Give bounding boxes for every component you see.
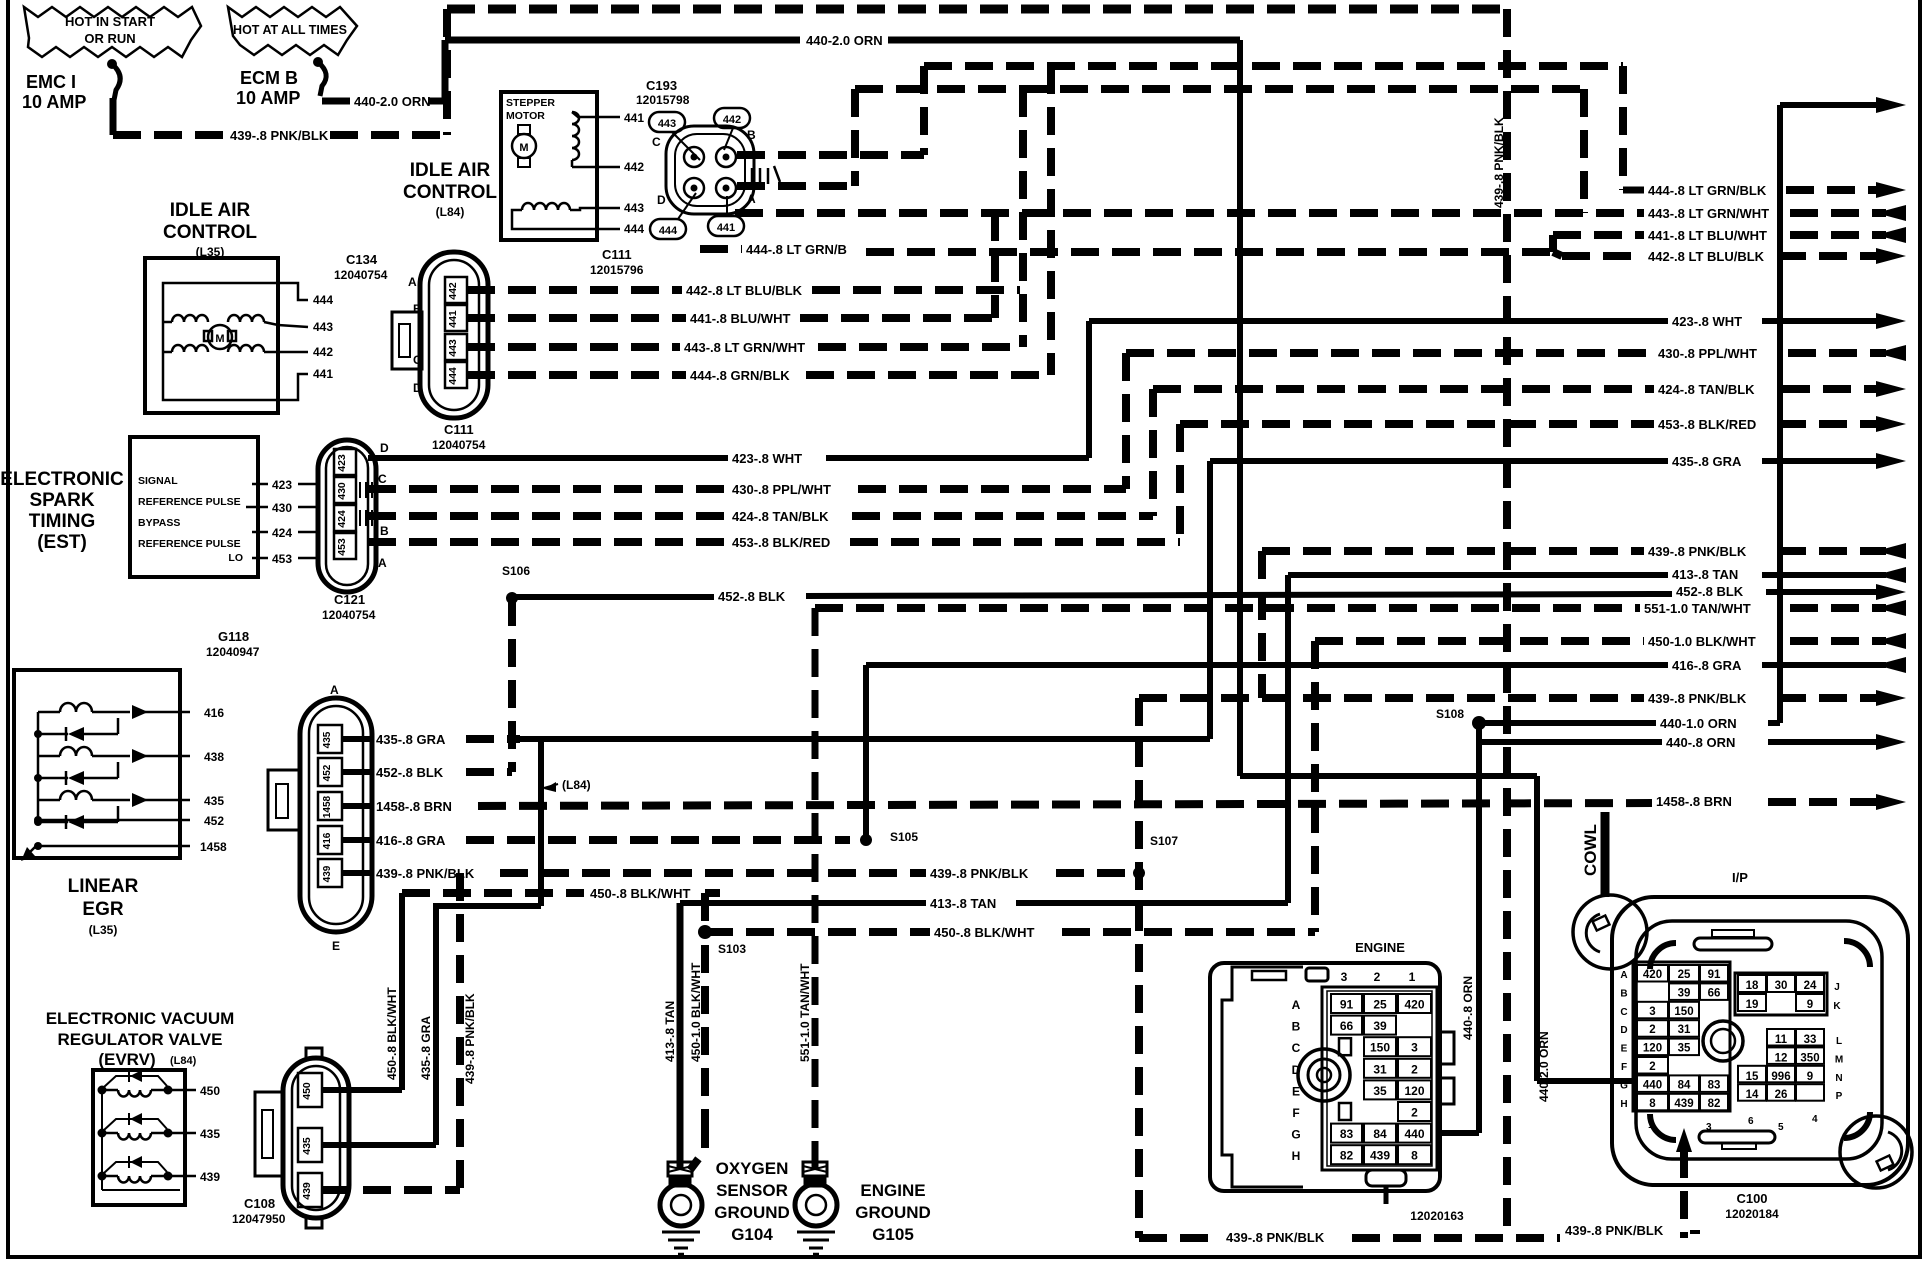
svg-text:(L35): (L35) xyxy=(89,923,118,937)
label ELECTRONIC SPARK TIMING (EST) xyxy=(0,469,124,553)
svg-text:420: 420 xyxy=(1643,969,1662,981)
svg-text:C: C xyxy=(652,135,661,149)
svg-text:B: B xyxy=(1620,988,1627,999)
svg-text:551-1.0 TAN/WHT: 551-1.0 TAN/WHT xyxy=(1644,601,1751,616)
wire 1458-.8 BRN xyxy=(342,794,1906,814)
svg-text:(L84): (L84) xyxy=(436,205,465,219)
svg-text:14: 14 xyxy=(1746,1089,1759,1101)
svg-text:(EVRV): (EVRV) xyxy=(98,1050,155,1069)
svg-text:453: 453 xyxy=(336,538,348,556)
label IDLE AIR CONTROL (L84) xyxy=(403,160,497,219)
svg-text:91: 91 xyxy=(1340,998,1354,1012)
svg-text:82: 82 xyxy=(1708,1098,1721,1110)
svg-text:30: 30 xyxy=(1775,980,1788,992)
svg-text:IDLE AIR: IDLE AIR xyxy=(410,160,491,181)
svg-text:B: B xyxy=(413,302,422,316)
svg-text:5: 5 xyxy=(1778,1122,1784,1133)
svg-text:453-.8 BLK/RED: 453-.8 BLK/RED xyxy=(1658,417,1756,432)
label ENGINE GROUND G105 xyxy=(855,1181,931,1244)
svg-text:439-.8 PNK/BLK: 439-.8 PNK/BLK xyxy=(1565,1223,1664,1238)
svg-text:C111: C111 xyxy=(602,247,632,262)
svg-text:MOTOR: MOTOR xyxy=(506,110,545,122)
EGR harness connector (5 way) xyxy=(268,683,372,953)
svg-text:423-.8 WHT: 423-.8 WHT xyxy=(1672,314,1742,329)
svg-text:S107: S107 xyxy=(1150,834,1178,848)
svg-text:COWL: COWL xyxy=(1581,824,1600,876)
svg-text:N: N xyxy=(1835,1073,1842,1084)
label G118 12040947 xyxy=(206,629,260,659)
wire 551-1.0 TAN/WHT vertical to G105 xyxy=(798,600,1906,1168)
svg-text:439-.8 PNK/BLK: 439-.8 PNK/BLK xyxy=(230,128,329,143)
svg-text:J: J xyxy=(1834,982,1840,993)
svg-text:12047950: 12047950 xyxy=(232,1212,286,1226)
svg-text:441: 441 xyxy=(624,111,644,125)
wire 413-.8 TAN xyxy=(680,567,1906,911)
svg-text:442-.8 LT BLU/BLK: 442-.8 LT BLU/BLK xyxy=(686,283,803,298)
svg-text:83: 83 xyxy=(1340,1127,1354,1141)
svg-text:442: 442 xyxy=(447,282,459,300)
svg-text:91: 91 xyxy=(1708,969,1721,981)
svg-text:440-2.0 ORN: 440-2.0 ORN xyxy=(806,33,883,48)
svg-text:A: A xyxy=(747,192,756,206)
svg-text:12040754: 12040754 xyxy=(322,608,376,622)
svg-text:10 AMP: 10 AMP xyxy=(22,92,86,112)
svg-text:84: 84 xyxy=(1373,1127,1387,1141)
svg-text:C: C xyxy=(413,353,422,367)
svg-text:31: 31 xyxy=(1373,1062,1387,1076)
wire 443-.8 LT GRN/WHT xyxy=(467,89,1906,355)
svg-text:424: 424 xyxy=(336,510,348,528)
svg-text:REGULATOR VALVE: REGULATOR VALVE xyxy=(58,1030,223,1049)
svg-text:11: 11 xyxy=(1775,1034,1788,1046)
svg-text:423: 423 xyxy=(272,478,292,492)
svg-text:(EST): (EST) xyxy=(37,532,87,553)
svg-text:443: 443 xyxy=(447,339,459,357)
svg-text:LINEAR: LINEAR xyxy=(68,876,139,897)
svg-text:440-1.0 ORN: 440-1.0 ORN xyxy=(1660,716,1737,731)
svg-text:IDLE AIR: IDLE AIR xyxy=(170,200,251,221)
svg-text:ENGINE: ENGINE xyxy=(860,1181,925,1200)
svg-text:B: B xyxy=(1292,1020,1301,1034)
svg-text:C108: C108 xyxy=(244,1196,275,1211)
svg-text:450: 450 xyxy=(200,1084,220,1098)
svg-text:1: 1 xyxy=(1648,1120,1654,1131)
svg-text:D: D xyxy=(1292,1063,1301,1077)
svg-text:12015798: 12015798 xyxy=(636,93,690,107)
svg-text:416-.8 GRA: 416-.8 GRA xyxy=(376,833,446,848)
svg-text:435-.8 GRA: 435-.8 GRA xyxy=(1672,454,1742,469)
connector C193 12015798 xyxy=(590,78,780,277)
svg-text:E: E xyxy=(1621,1044,1628,1055)
svg-text:26: 26 xyxy=(1775,1089,1788,1101)
svg-text:25: 25 xyxy=(1678,969,1691,981)
svg-text:P: P xyxy=(1836,1091,1843,1102)
svg-text:443: 443 xyxy=(313,320,333,334)
svg-text:D: D xyxy=(657,193,666,207)
svg-text:B: B xyxy=(747,128,756,142)
svg-text:M: M xyxy=(519,142,528,154)
svg-text:440: 440 xyxy=(1404,1127,1424,1141)
svg-text:3: 3 xyxy=(1411,1041,1418,1055)
callout box HOT AT ALL TIMES xyxy=(228,7,357,55)
svg-text:STEPPER: STEPPER xyxy=(506,97,555,109)
svg-text:435: 435 xyxy=(322,731,333,748)
EVRV solenoid box xyxy=(93,1070,220,1205)
wire 430-.8 PPL/WHT xyxy=(368,345,1906,497)
splice S103 xyxy=(698,925,746,956)
svg-text:442-.8 LT BLU/BLK: 442-.8 LT BLU/BLK xyxy=(1648,249,1765,264)
svg-text:ENGINE: ENGINE xyxy=(1355,940,1405,955)
svg-text:150: 150 xyxy=(1674,1006,1693,1018)
svg-text:435: 435 xyxy=(301,1137,313,1155)
connector ENGINE side 12020163 xyxy=(1210,940,1464,1223)
svg-text:12040754: 12040754 xyxy=(432,438,486,452)
svg-text:82: 82 xyxy=(1340,1149,1354,1163)
svg-text:443: 443 xyxy=(624,201,644,215)
svg-text:416-.8 GRA: 416-.8 GRA xyxy=(1672,658,1742,673)
svg-text:430-.8 PPL/WHT: 430-.8 PPL/WHT xyxy=(732,482,831,497)
svg-text:1: 1 xyxy=(1409,970,1416,984)
svg-text:350: 350 xyxy=(1800,1052,1819,1064)
svg-text:439-.8 PNK/BLK: 439-.8 PNK/BLK xyxy=(1226,1230,1325,1245)
wire 435 branch to EVRV (L84) xyxy=(436,739,591,1145)
svg-text:G: G xyxy=(1620,1080,1628,1091)
svg-text:25: 25 xyxy=(1373,998,1387,1012)
svg-text:ECM B: ECM B xyxy=(240,68,298,88)
label COWL xyxy=(1581,812,1605,897)
wire 435-.8 GRA from C108 xyxy=(322,1016,436,1145)
svg-text:BYPASS: BYPASS xyxy=(138,517,180,529)
svg-text:996: 996 xyxy=(1771,1071,1790,1083)
svg-text:66: 66 xyxy=(1708,987,1721,999)
svg-text:3: 3 xyxy=(1649,1006,1655,1018)
svg-text:C: C xyxy=(1620,1007,1627,1018)
svg-text:439-.8 PNK/BLK: 439-.8 PNK/BLK xyxy=(1492,117,1506,208)
svg-text:439-.8 PNK/BLK: 439-.8 PNK/BLK xyxy=(930,866,1029,881)
svg-text:416: 416 xyxy=(204,706,224,720)
wire 450-.8 BLK/WHT from C108 xyxy=(322,886,720,1090)
svg-text:2: 2 xyxy=(1411,1062,1418,1076)
svg-text:424: 424 xyxy=(272,526,292,540)
svg-text:A: A xyxy=(408,275,417,289)
svg-text:439-.8 PNK/BLK: 439-.8 PNK/BLK xyxy=(463,993,477,1084)
svg-text:A: A xyxy=(1620,970,1627,981)
svg-text:66: 66 xyxy=(1340,1019,1354,1033)
svg-text:EGR: EGR xyxy=(82,899,123,920)
svg-text:444-.8 GRN/BLK: 444-.8 GRN/BLK xyxy=(690,368,790,383)
wire 452-.8 BLK xyxy=(512,584,1906,772)
svg-text:435-.8 GRA: 435-.8 GRA xyxy=(376,732,446,747)
wire 424-.8 TAN/BLK xyxy=(368,381,1906,524)
svg-text:C193: C193 xyxy=(646,78,677,93)
svg-text:8: 8 xyxy=(1649,1098,1656,1110)
wire from C193 pin A (443 feed) xyxy=(737,89,855,186)
wire 439-.8 PNK/BLK upper run xyxy=(1139,690,1906,706)
svg-text:I/P: I/P xyxy=(1732,870,1748,885)
svg-text:430: 430 xyxy=(336,482,348,500)
svg-text:435-.8 GRA: 435-.8 GRA xyxy=(419,1016,433,1080)
svg-text:A: A xyxy=(1292,998,1301,1012)
svg-text:439: 439 xyxy=(1674,1098,1693,1110)
svg-text:444: 444 xyxy=(313,293,333,307)
svg-text:D: D xyxy=(380,441,389,455)
wire 450-.8 BLK/WHT from S103 xyxy=(705,633,1906,940)
svg-text:442: 442 xyxy=(723,114,741,126)
fuse ECM B 10 AMP xyxy=(236,57,326,108)
svg-text:10 AMP: 10 AMP xyxy=(236,88,300,108)
svg-text:120: 120 xyxy=(1643,1043,1662,1055)
svg-text:443-.8 LT GRN/WHT: 443-.8 LT GRN/WHT xyxy=(684,340,805,355)
svg-text:E: E xyxy=(332,939,340,953)
wire 439 vertical riser at x=447 xyxy=(443,9,451,135)
wire 423-.8 WHT xyxy=(368,313,1906,466)
svg-text:M: M xyxy=(1835,1054,1843,1065)
svg-text:150: 150 xyxy=(1370,1041,1390,1055)
svg-text:430: 430 xyxy=(272,501,292,515)
connector C100 I/P 12020184 xyxy=(1573,870,1912,1221)
svg-text:L: L xyxy=(1836,1036,1842,1047)
svg-text:439: 439 xyxy=(200,1170,220,1184)
svg-text:439: 439 xyxy=(301,1182,313,1200)
linear EGR valve box xyxy=(14,670,227,861)
splice S106 xyxy=(502,564,530,604)
svg-text:S106: S106 xyxy=(502,564,530,578)
wire 416-.8 GRA xyxy=(342,657,1906,848)
svg-text:CONTROL: CONTROL xyxy=(163,222,257,243)
svg-text:441: 441 xyxy=(313,367,333,381)
svg-text:35: 35 xyxy=(1678,1043,1691,1055)
svg-text:8: 8 xyxy=(1411,1149,1418,1163)
svg-text:G118: G118 xyxy=(218,629,249,644)
svg-text:A: A xyxy=(378,556,387,570)
svg-text:452-.8 BLK: 452-.8 BLK xyxy=(376,765,444,780)
svg-text:TIMING: TIMING xyxy=(29,511,96,532)
svg-text:452: 452 xyxy=(322,764,333,781)
svg-text:SPARK: SPARK xyxy=(29,490,94,511)
svg-text:2: 2 xyxy=(1649,1024,1655,1036)
svg-text:15: 15 xyxy=(1746,1071,1759,1083)
svg-text:441: 441 xyxy=(447,310,459,328)
svg-text:439: 439 xyxy=(1370,1149,1390,1163)
svg-text:450: 450 xyxy=(301,1082,313,1100)
wire 440-2.0 ORN from ECM B fuse xyxy=(322,33,1637,1102)
svg-text:OXYGEN: OXYGEN xyxy=(716,1159,789,1178)
splice S107 xyxy=(1133,834,1178,879)
svg-text:453: 453 xyxy=(272,552,292,566)
svg-text:1458: 1458 xyxy=(200,840,227,854)
wire 439-.8 PNK/BLK from EGR pin E xyxy=(342,866,1139,881)
svg-text:(L84): (L84) xyxy=(562,778,591,792)
svg-text:444: 444 xyxy=(659,225,678,237)
svg-text:D: D xyxy=(413,381,422,395)
svg-text:H: H xyxy=(1620,1099,1627,1110)
svg-text:424-.8 TAN/BLK: 424-.8 TAN/BLK xyxy=(732,509,829,524)
label OXYGEN SENSOR GROUND G104 xyxy=(714,1159,790,1244)
svg-text:551-1.0 TAN/WHT: 551-1.0 TAN/WHT xyxy=(798,963,812,1062)
svg-text:9: 9 xyxy=(1807,1071,1813,1083)
wire from C193 pin B (444 feed) xyxy=(737,66,924,155)
svg-text:S105: S105 xyxy=(890,830,918,844)
svg-text:120: 120 xyxy=(1404,1084,1424,1098)
svg-text:6: 6 xyxy=(1748,1116,1754,1127)
ground terminal G105 xyxy=(795,1162,837,1254)
svg-text:444-.8 LT GRN/B: 444-.8 LT GRN/B xyxy=(746,242,847,257)
wire 439-.8 PNK/BLK from EMC I fuse xyxy=(113,128,447,143)
callout box HOT IN START OR RUN xyxy=(24,7,201,57)
wire 440-.8 ORN xyxy=(1437,723,1906,1133)
svg-text:(L84): (L84) xyxy=(170,1055,197,1067)
svg-text:F: F xyxy=(1621,1062,1627,1073)
svg-text:F: F xyxy=(1292,1106,1299,1120)
svg-text:1458-.8 BRN: 1458-.8 BRN xyxy=(1656,794,1732,809)
svg-text:12020163: 12020163 xyxy=(1410,1209,1464,1223)
EST distributor box xyxy=(130,437,318,577)
svg-text:C134: C134 xyxy=(346,252,378,267)
svg-text:35: 35 xyxy=(1373,1084,1387,1098)
svg-text:435: 435 xyxy=(200,1127,220,1141)
svg-text:M: M xyxy=(215,333,224,345)
wire 439-.8 PNK/BLK long vertical drop x=1507 xyxy=(1492,9,1507,1238)
svg-text:12040947: 12040947 xyxy=(206,645,260,659)
fuse EMC I 10 AMP xyxy=(22,59,120,135)
svg-text:450-.8 BLK/WHT: 450-.8 BLK/WHT xyxy=(385,987,399,1080)
wire 444-.8 LT GRN/BLK from C193 pin D xyxy=(700,242,1553,257)
svg-text:24: 24 xyxy=(1804,980,1817,992)
svg-text:444-.8 LT GRN/BLK: 444-.8 LT GRN/BLK xyxy=(1648,183,1767,198)
svg-text:2: 2 xyxy=(1649,1061,1655,1073)
svg-text:444: 444 xyxy=(447,367,459,385)
svg-text:444: 444 xyxy=(624,222,644,236)
svg-text:1458: 1458 xyxy=(322,795,333,818)
svg-text:HOT IN START: HOT IN START xyxy=(65,14,155,29)
svg-text:C121: C121 xyxy=(334,592,365,607)
wire 439-.8 PNK/BLK from C108 xyxy=(322,873,477,1190)
wire 439 top bus run xyxy=(447,5,1507,14)
svg-text:12040754: 12040754 xyxy=(334,268,388,282)
svg-text:HOT AT ALL TIMES: HOT AT ALL TIMES xyxy=(233,23,347,37)
svg-text:416: 416 xyxy=(322,832,333,849)
wire 452-.8 BLK from EGR pin B xyxy=(342,765,512,780)
svg-text:450-.8 BLK/WHT: 450-.8 BLK/WHT xyxy=(934,925,1034,940)
svg-text:C100: C100 xyxy=(1736,1191,1767,1206)
wire 439-.8 PNK/BLK to ECM (row 551) xyxy=(1262,543,1906,698)
svg-text:442: 442 xyxy=(313,345,333,359)
svg-text:S103: S103 xyxy=(718,942,746,956)
wire from C193 pin C (441 link) xyxy=(735,213,1644,318)
svg-text:423: 423 xyxy=(336,454,348,472)
svg-text:440-.8 ORN: 440-.8 ORN xyxy=(1461,976,1475,1040)
svg-text:440-2.0 ORN: 440-2.0 ORN xyxy=(354,94,431,109)
wire 442-.8 LT BLU/BLK xyxy=(467,248,1906,298)
splice S108 xyxy=(1436,707,1486,730)
svg-text:420: 420 xyxy=(1404,998,1424,1012)
svg-text:D: D xyxy=(1620,1025,1627,1036)
svg-text:39: 39 xyxy=(1373,1019,1387,1033)
svg-text:LO: LO xyxy=(228,552,243,564)
wire 439-.8 PNK/BLK bottom run xyxy=(1139,1128,1700,1245)
svg-text:12: 12 xyxy=(1775,1052,1788,1064)
svg-text:SIGNAL: SIGNAL xyxy=(138,475,178,487)
svg-text:2: 2 xyxy=(1374,970,1381,984)
svg-text:413-.8 TAN: 413-.8 TAN xyxy=(930,896,996,911)
svg-text:439: 439 xyxy=(322,865,333,882)
label ELECTRONIC VACUUM REGULATOR VALVE (EVRV) (L84) xyxy=(46,1009,235,1069)
svg-text:443: 443 xyxy=(658,118,676,130)
svg-text:438: 438 xyxy=(204,750,224,764)
svg-text:G104: G104 xyxy=(731,1225,773,1244)
label IDLE AIR CONTROL (L35) xyxy=(163,200,257,259)
svg-text:441-.8 BLU/WHT: 441-.8 BLU/WHT xyxy=(690,311,790,326)
wire 440-1.0 ORN xyxy=(1479,97,1906,731)
svg-text:39: 39 xyxy=(1678,987,1691,999)
svg-text:450-1.0 BLK/WHT: 450-1.0 BLK/WHT xyxy=(689,962,703,1062)
svg-text:441: 441 xyxy=(717,222,735,234)
svg-text:3: 3 xyxy=(1341,970,1348,984)
svg-text:439-.8 PNK/BLK: 439-.8 PNK/BLK xyxy=(1648,544,1747,559)
wire 444-.8 GRN/BLK xyxy=(467,66,1906,383)
ground terminal G104 xyxy=(660,1162,702,1254)
svg-text:C: C xyxy=(1292,1041,1301,1055)
svg-text:4: 4 xyxy=(1812,1114,1818,1125)
svg-text:EMC I: EMC I xyxy=(26,72,76,92)
wire 450-1.0 BLK/WHT vertical to G104 xyxy=(689,945,705,1170)
svg-text:CONTROL: CONTROL xyxy=(403,182,497,203)
svg-text:452-.8 BLK: 452-.8 BLK xyxy=(1676,584,1744,599)
wire 441-.8 LT BLU/WHT xyxy=(467,227,1906,326)
svg-text:C111: C111 xyxy=(444,422,474,437)
svg-text:450-1.0 BLK/WHT: 450-1.0 BLK/WHT xyxy=(1648,634,1756,649)
svg-text:31: 31 xyxy=(1678,1024,1691,1036)
svg-text:18: 18 xyxy=(1746,980,1759,992)
label LINEAR EGR (L35) xyxy=(68,876,139,937)
svg-text:ELECTRONIC: ELECTRONIC xyxy=(0,469,124,490)
svg-text:E: E xyxy=(1292,1084,1300,1098)
svg-text:A: A xyxy=(330,683,339,697)
connector C108 12047950 xyxy=(232,1048,349,1228)
svg-text:ELECTRONIC VACUUM: ELECTRONIC VACUUM xyxy=(46,1009,235,1028)
svg-text:413-.8 TAN: 413-.8 TAN xyxy=(663,1001,677,1062)
svg-text:REFERENCE PULSE: REFERENCE PULSE xyxy=(138,538,241,550)
svg-text:452-.8 BLK: 452-.8 BLK xyxy=(718,589,786,604)
svg-text:424-.8 TAN/BLK: 424-.8 TAN/BLK xyxy=(1658,382,1755,397)
svg-text:K: K xyxy=(1833,1001,1841,1012)
idle air control motor IAC L35 xyxy=(145,258,333,413)
svg-text:H: H xyxy=(1292,1149,1301,1163)
wire 435-.8 GRA xyxy=(342,453,1906,747)
svg-text:83: 83 xyxy=(1708,1079,1721,1091)
svg-text:453-.8 BLK/RED: 453-.8 BLK/RED xyxy=(732,535,830,550)
connector C134 12040754 xyxy=(334,252,488,452)
svg-text:S108: S108 xyxy=(1436,707,1464,721)
svg-text:OR RUN: OR RUN xyxy=(84,31,135,46)
svg-text:84: 84 xyxy=(1678,1079,1691,1091)
svg-text:12015796: 12015796 xyxy=(590,263,644,277)
svg-text:430-.8 PPL/WHT: 430-.8 PPL/WHT xyxy=(1658,346,1757,361)
svg-text:443-.8 LT GRN/WHT: 443-.8 LT GRN/WHT xyxy=(1648,206,1769,221)
svg-text:SENSOR: SENSOR xyxy=(716,1181,788,1200)
svg-text:33: 33 xyxy=(1804,1034,1817,1046)
svg-text:442: 442 xyxy=(624,160,644,174)
svg-text:423-.8 WHT: 423-.8 WHT xyxy=(732,451,802,466)
svg-text:2: 2 xyxy=(1411,1106,1418,1120)
svg-text:440-.8 ORN: 440-.8 ORN xyxy=(1666,735,1735,750)
svg-text:C: C xyxy=(378,472,387,486)
svg-text:B: B xyxy=(380,524,389,538)
svg-text:REFERENCE PULSE: REFERENCE PULSE xyxy=(138,496,241,508)
svg-text:440-2.0 ORN: 440-2.0 ORN xyxy=(1537,1031,1551,1102)
svg-text:413-.8 TAN: 413-.8 TAN xyxy=(1672,567,1738,582)
svg-text:439-.8 PNK/BLK: 439-.8 PNK/BLK xyxy=(1648,691,1747,706)
